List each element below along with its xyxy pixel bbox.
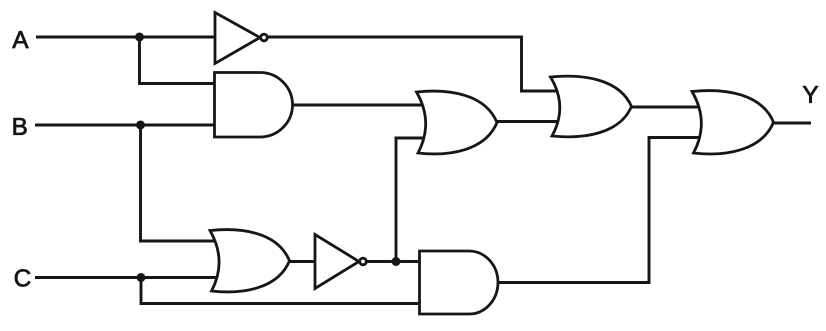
label input B	[14, 118, 27, 135]
inverter NOT2 triangle	[315, 235, 359, 289]
or-gate OR2	[417, 91, 498, 154]
junction dot on C wire	[137, 273, 146, 282]
or-gate OR1	[210, 230, 290, 292]
wire OR1 output to NOT2 input	[288, 260, 316, 263]
wire input A	[36, 36, 216, 39]
inverter NOT2 bubble	[360, 258, 367, 265]
wire AND2 output up to OR4 input 2	[496, 138, 708, 283]
wire input B	[35, 124, 216, 127]
inverter NOT1 triangle	[215, 13, 260, 64]
junction dot after NOT2	[392, 257, 401, 266]
wire NOT1 output to OR3 input 1	[268, 37, 566, 91]
wire NOT2 output to AND2 input 1	[367, 260, 428, 263]
wire A branch down to AND1 input	[140, 37, 219, 84]
wire input C	[35, 276, 228, 279]
junction dot on B wire	[136, 121, 145, 130]
or-gate OR3	[551, 76, 632, 137]
wire B branch down to OR1 input	[141, 125, 225, 241]
inverter NOT1 bubble	[261, 34, 268, 41]
wire OR3 output to OR4 input 1	[630, 106, 708, 109]
junction dot on A wire	[135, 33, 144, 42]
label input C	[15, 269, 30, 286]
label output Y	[803, 86, 818, 103]
and-gate AND1	[215, 73, 293, 138]
wire C branch down to AND2 input	[141, 278, 428, 304]
or-gate OR4	[692, 91, 774, 154]
label input A	[12, 31, 28, 48]
wire AND1 output to OR2 input 1	[292, 104, 436, 107]
and-gate AND2	[420, 251, 498, 314]
wire OR2 output to OR3 input 2	[496, 120, 566, 123]
wire NOT2 junction up to OR2 input 2	[396, 138, 436, 262]
wire output Y	[772, 122, 811, 125]
